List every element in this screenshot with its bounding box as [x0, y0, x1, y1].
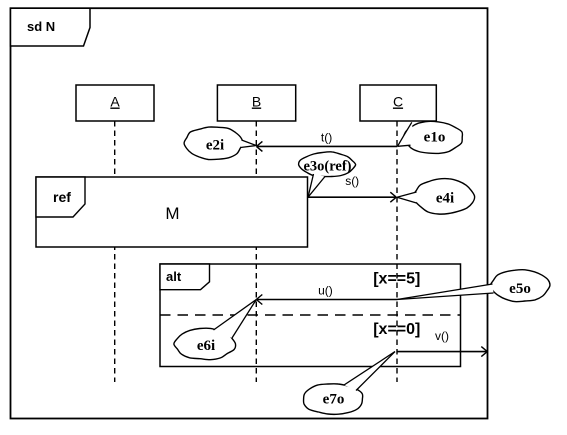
svg-text:sd N: sd N [27, 19, 55, 34]
lifeline C (dashed) [396, 121, 398, 382]
lifeline B (dashed) [255, 121, 257, 382]
svg-text:s(): s() [345, 174, 359, 188]
lifeline head C [360, 85, 436, 121]
callout e3o(ref) [299, 152, 356, 197]
svg-text:alt: alt [166, 269, 182, 284]
message v() from C to frame edge [397, 351, 486, 353]
svg-text:C: C [393, 94, 403, 110]
svg-text:[x==0]: [x==0] [373, 321, 420, 338]
lifeline head B [217, 85, 295, 121]
arrowhead v() at frame [481, 347, 487, 352]
callout e1o [398, 121, 463, 153]
svg-text:e1o: e1o [424, 130, 446, 146]
lifeline A (dashed) [114, 121, 116, 382]
lifeline head A [76, 85, 154, 121]
message s() from M to C [308, 196, 396, 198]
arrowhead u() at B [256, 295, 262, 300]
callout e2i [184, 127, 256, 160]
callout e6i [174, 300, 256, 360]
svg-text:M: M [165, 204, 179, 223]
ref fragment M [36, 177, 308, 247]
callout e4i [397, 179, 475, 215]
ref tab pentagon [36, 177, 85, 217]
callout e7o [304, 352, 395, 415]
svg-text:e3o(ref): e3o(ref) [303, 159, 351, 175]
svg-text:t(): t() [321, 131, 332, 145]
frame sd N [11, 8, 488, 418]
svg-text:A: A [110, 94, 120, 110]
svg-text:ref: ref [53, 189, 71, 205]
arrowhead t() at B [256, 141, 262, 146]
alt tab pentagon [160, 264, 210, 290]
svg-text:[x==5]: [x==5] [373, 270, 420, 287]
alt fragment [160, 264, 461, 367]
svg-text:e7o: e7o [323, 392, 345, 408]
message u() from C to B [257, 299, 397, 301]
svg-text:e6i: e6i [197, 338, 215, 354]
alt separator (dashed) [160, 314, 461, 316]
svg-text:e5o: e5o [509, 281, 531, 297]
message t() from C to B [257, 145, 397, 147]
svg-text:u(): u() [318, 284, 333, 298]
svg-text:B: B [252, 94, 261, 110]
svg-text:e4i: e4i [436, 191, 454, 207]
svg-text:e2i: e2i [206, 138, 224, 154]
frame label pentagon sd N [11, 8, 91, 46]
svg-text:v(): v() [435, 329, 449, 343]
callout e5o [397, 270, 550, 302]
arrowhead s() at C [390, 192, 396, 197]
